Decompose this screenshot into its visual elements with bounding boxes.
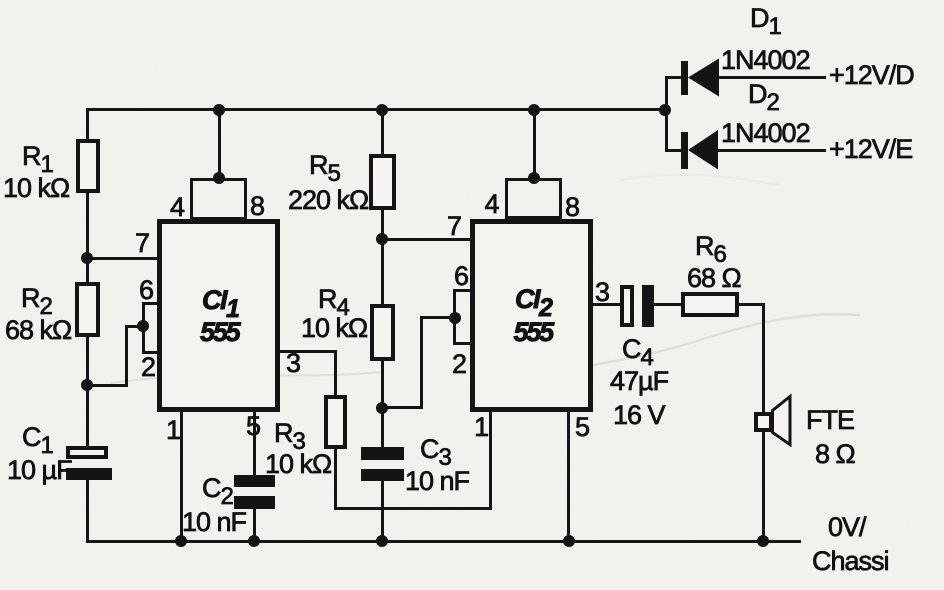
wire C4 to R6 [654, 303, 683, 306]
pin 1 CI1 [166, 417, 180, 444]
resistor R5 [369, 154, 396, 210]
wire bottom ground rail [86, 540, 802, 543]
wire speaker to ground [762, 432, 765, 543]
node C3 ground junction [376, 535, 388, 547]
wire down to speaker [762, 303, 765, 413]
wire pin3 CI1 down to R3 [334, 350, 337, 396]
node top rail diode junction [659, 104, 671, 116]
pin 7 CI1 [135, 230, 149, 257]
value FTE 8 &#937; [815, 441, 855, 468]
capacitor C4 positive plate [620, 285, 634, 327]
net +12V/D [829, 62, 914, 89]
wire D1 to +12V/D [719, 76, 827, 79]
wire R3 loop horizontal [334, 507, 492, 510]
pin 3 CI1 [286, 350, 300, 377]
label CI1 [202, 287, 238, 323]
wire pins 4-8 connector box CI2 [505, 178, 563, 219]
label 555 CI1 [200, 319, 238, 346]
node pin5 CI2 ground junction [563, 535, 575, 547]
wire D2 to +12V/E [718, 149, 827, 152]
value R2 68 k&#937; [5, 317, 71, 344]
diode D1 cathode bar [681, 61, 689, 95]
wire to D1 anode side [666, 76, 682, 79]
capacitor C2 top plate [234, 475, 275, 487]
capacitor C2 bottom plate [234, 496, 275, 509]
pin 5 CI2 [575, 414, 589, 441]
pin 1 CI2 [474, 414, 488, 441]
pin 6 CI1 [139, 277, 153, 304]
wire R5 to R4 [381, 209, 384, 305]
pin 8 CI2 [565, 194, 579, 221]
wire top rail to R5 [381, 108, 384, 156]
capacitor C4 negative plate [642, 285, 654, 327]
wire pin6-pin2 stub CI1 vertical [142, 302, 145, 354]
label D2 [748, 81, 779, 116]
label C4 [622, 336, 653, 371]
diode D2 cathode bar [681, 132, 689, 169]
speaker FTE coil box [754, 412, 773, 432]
wire R4 to C3 node [381, 360, 384, 448]
pin 6 CI2 [454, 263, 468, 290]
value C4 16 V [613, 402, 665, 429]
node top rail junction CI2 [528, 104, 540, 116]
value D1 1N4002 [721, 47, 810, 74]
pin 7 CI2 [447, 213, 461, 240]
capacitor C1 bottom plate [66, 468, 112, 480]
node junction R1-R2 pin7 CI1 [81, 252, 93, 264]
node pin1 CI1 ground junction [175, 535, 187, 547]
pin 4 CI2 [485, 191, 499, 218]
wire pin7 CI1 [87, 257, 160, 260]
wire pin5 CI1 to C2 [253, 409, 256, 475]
node junction R5-R4 pin7 CI2 [376, 233, 388, 245]
label 555 CI2 [514, 319, 552, 346]
node junction R4-C3-pin6 CI2 [376, 402, 388, 414]
wire R3 bottom down [334, 448, 337, 510]
wire pin2 stub CI2 [455, 342, 473, 345]
value C4 47uF [610, 368, 668, 395]
wire up to pin1 CI2 [489, 410, 492, 509]
node top rail junction R5 [376, 104, 388, 116]
wire supply riser to pins 4-8 CI2 [533, 108, 536, 179]
op-amp IC CI1 555 body [157, 219, 280, 412]
value R5 220 k&#937; [288, 187, 368, 214]
value C1 10 uF [7, 457, 72, 484]
node speaker ground junction [757, 535, 769, 547]
pin 2 CI2 [452, 351, 466, 378]
resistor R3 [324, 395, 347, 449]
wire node to pin6 CI2 horizontal [382, 406, 423, 409]
wire down segment to R2 rail [125, 325, 128, 387]
wire supply riser to pins 4-8 CI1 [218, 108, 221, 179]
label CI2 [515, 286, 551, 322]
node junction pin6-pin2 CI1 [137, 320, 149, 332]
node C2 ground junction [248, 535, 260, 547]
capacitor C3 bottom plate [361, 469, 404, 482]
wire left rail top segment [86, 108, 89, 140]
wire pin1 CI1 to ground [180, 409, 183, 543]
wire C3 to ground [381, 481, 384, 543]
net Chassi [812, 548, 889, 575]
wire pin2 stub CI1 [143, 351, 160, 354]
wire pin6 stub CI2 [455, 289, 473, 292]
wire C2 to ground [253, 508, 256, 543]
wire R6 to corner [739, 303, 765, 306]
wire left rail R1-R2 segment [86, 192, 89, 283]
wire to D2 anode side [666, 149, 682, 152]
pin 3 CI2 [595, 279, 609, 306]
wire junction to left segment [125, 325, 144, 328]
wire pin5 CI2 to ground [567, 409, 570, 543]
label R5 [309, 152, 340, 187]
label R6 [695, 233, 726, 268]
pin 4 CI1 [170, 194, 184, 221]
wire pin3 CI2 to C4 [593, 303, 620, 306]
wire pin7 CI2 [382, 238, 472, 241]
value R4 10 k&#937; [301, 315, 367, 342]
label R1 [22, 143, 53, 178]
wire pin6 CI2 vertical segment [420, 316, 423, 408]
label FTE [806, 407, 854, 434]
wire pin6 stub CI1 [143, 302, 160, 305]
pin 2 CI1 [141, 354, 155, 381]
wire pin3 CI1 horizontal [280, 350, 337, 353]
value R6 68 &#937; [687, 265, 741, 292]
label D1 [750, 5, 781, 40]
op-amp IC CI2 555 body [470, 219, 594, 412]
wire pin6-pin2 stub CI2 vertical [453, 289, 456, 345]
node junction left rail R2-C1 [81, 379, 93, 391]
label C1 [22, 424, 53, 459]
value R1 10 k&#937; [3, 175, 69, 202]
net 0V [828, 514, 866, 541]
label C3 [420, 436, 451, 471]
resistor R2 [75, 282, 100, 337]
label R4 [318, 286, 349, 321]
label C2 [202, 475, 233, 510]
pin 5 CI1 [246, 413, 260, 440]
wire diode branch vertical [665, 76, 668, 152]
wire to pin6-2 stub CI2 [422, 316, 457, 319]
label R2 [21, 285, 52, 320]
resistor R4 [370, 304, 395, 361]
capacitor C1 top plate [66, 446, 108, 459]
value C2 10 nF [182, 509, 246, 536]
label R3 [274, 420, 305, 455]
value D2 1N4002 [721, 120, 810, 147]
value C3 10 nF [405, 468, 469, 495]
capacitor C3 top plate [361, 447, 404, 460]
node top rail junction CI1 [213, 104, 225, 116]
wire left rail C1-bottom segment [86, 478, 89, 543]
resistor R6 [681, 292, 739, 317]
net +12V/E [829, 136, 912, 163]
node pins 4-8 CI2 [528, 172, 540, 184]
pin 8 CI1 [250, 193, 264, 220]
resistor R1 [76, 139, 100, 193]
wire to left rail [87, 384, 128, 387]
node junction pin6-pin2 CI2 [449, 312, 461, 324]
node pins 4-8 CI1 [213, 172, 225, 184]
wire pins 4-8 connector box CI1 [190, 178, 247, 220]
wire top supply rail [86, 108, 668, 111]
wire left rail R2-C1 segment [86, 335, 89, 447]
value R3 10 k&#937; [265, 451, 331, 478]
